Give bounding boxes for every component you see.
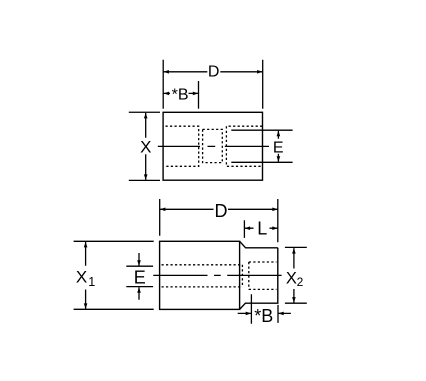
svg-text:1: 1 — [88, 275, 95, 289]
svg-text:*B: *B — [172, 87, 189, 104]
svg-text:L: L — [257, 219, 267, 239]
svg-text:X: X — [140, 138, 151, 157]
svg-text:*B: *B — [254, 306, 273, 326]
svg-text:X: X — [286, 269, 297, 287]
svg-text:E: E — [273, 139, 284, 156]
svg-text:X: X — [76, 268, 87, 287]
svg-text:2: 2 — [297, 275, 304, 289]
svg-text:D: D — [208, 64, 220, 81]
svg-text:D: D — [215, 201, 228, 221]
svg-text:E: E — [134, 267, 146, 287]
